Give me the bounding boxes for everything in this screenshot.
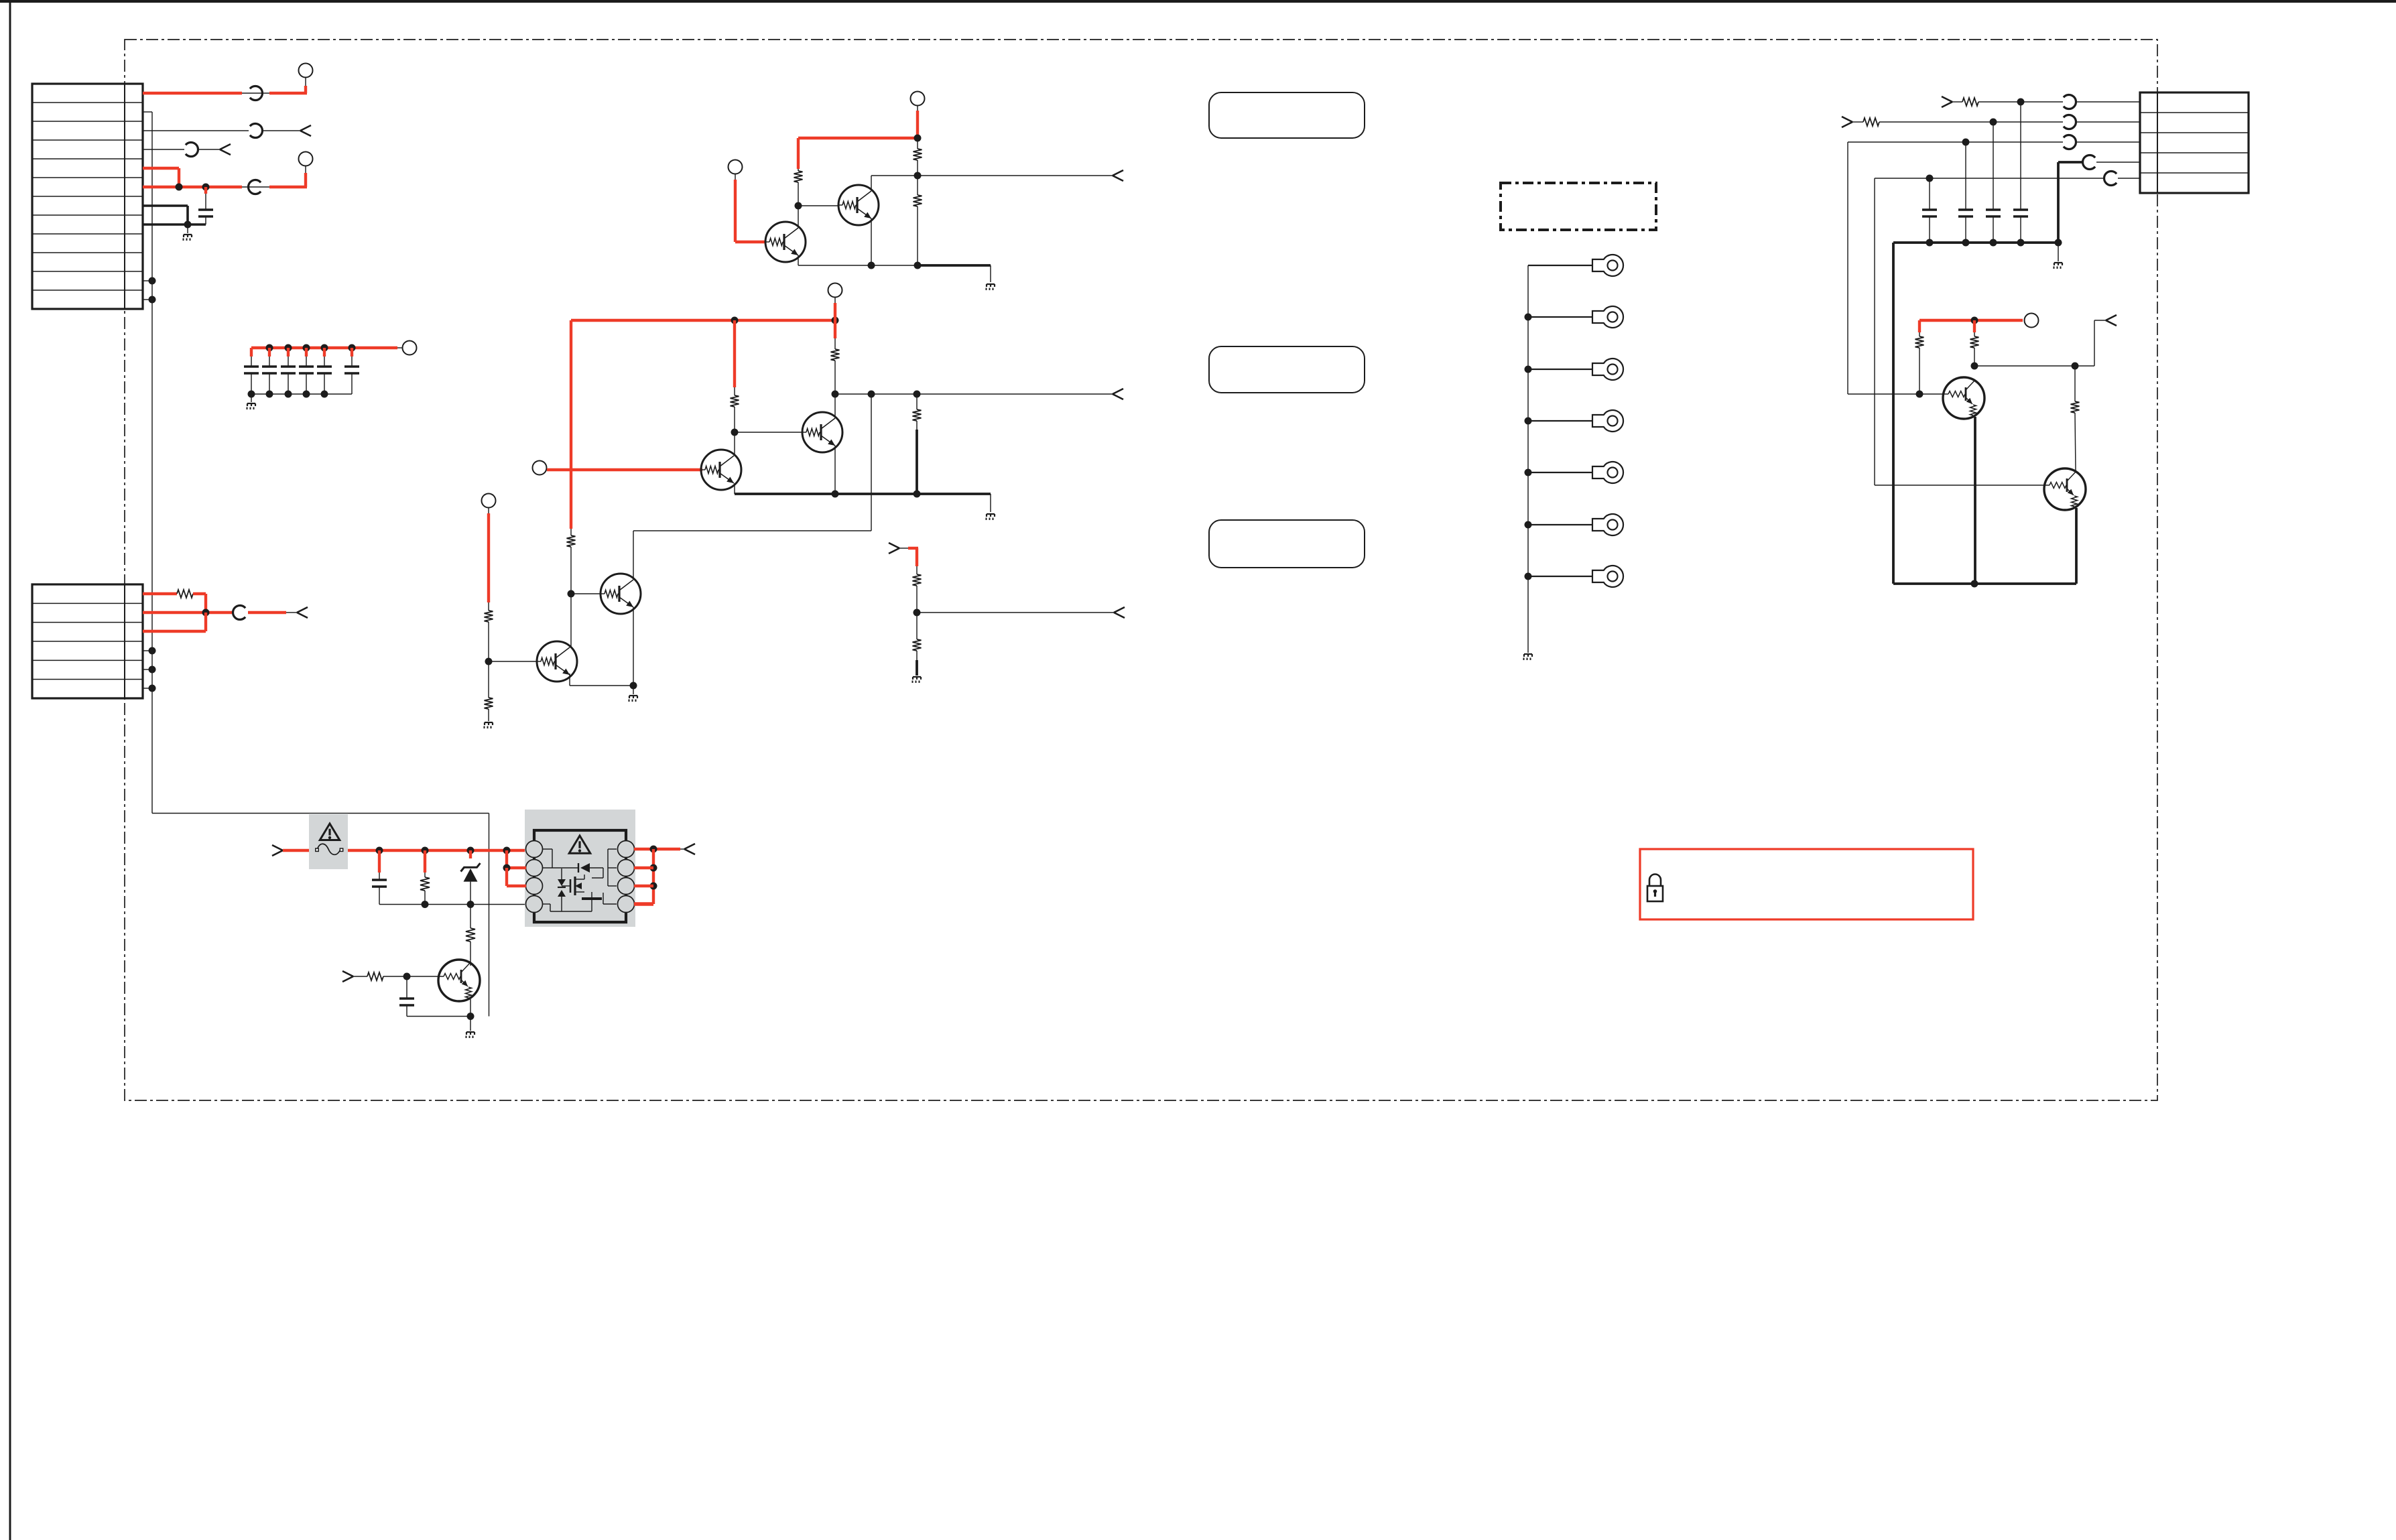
inline splice P1: [242, 86, 269, 101]
ring terminal E5: [1592, 462, 1623, 483]
ring terminal E1: [1592, 255, 1623, 276]
junction dot K1: [1926, 239, 1934, 247]
junction dot C1: [202, 609, 210, 617]
junction dot L1: [376, 847, 383, 854]
capacitor C12 bottom lead: [2020, 216, 2021, 243]
junction dot J3: [1962, 139, 1970, 146]
wire Q9 emitter: [470, 999, 471, 1017]
wire CN2 pin3 (red): [143, 613, 206, 631]
ground G1: [184, 224, 192, 241]
capacitor C1 bottom lead: [205, 216, 206, 224]
cap bank ground rail: [251, 393, 352, 395]
inline splice P7: [2064, 115, 2076, 129]
wire Q2 collector: [871, 176, 872, 191]
connector CN1: [32, 84, 143, 309]
resistor R20: [367, 972, 383, 980]
IC U1 internals: [543, 849, 617, 911]
wire N1 drop (red): [797, 138, 800, 169]
arrow in wireA: [1942, 97, 1952, 102]
capacitor C2 top lead: [251, 357, 252, 367]
zener diode D1: [461, 863, 481, 905]
arrow out pin3: [300, 125, 311, 131]
junction dot J9: [1971, 580, 1978, 588]
capacitor C5: [299, 365, 314, 367]
wire CN2 pin1 (red): [143, 592, 177, 595]
junction dot L10: [650, 883, 657, 890]
inline splice P5: [233, 606, 246, 620]
wire right tie (red): [652, 849, 655, 904]
junction dot D2: [914, 172, 922, 180]
wire CN2 pin4: [143, 650, 152, 651]
junction dot K5: [2055, 239, 2062, 247]
inline splice P8: [2064, 135, 2076, 149]
junction dot L12: [467, 1013, 475, 1020]
arrow in control: [342, 971, 353, 976]
wire TP5 down (red): [735, 174, 736, 243]
wire B in: [1852, 121, 1863, 123]
junction dot L9: [650, 864, 657, 872]
wire N2 drop left (red): [570, 320, 572, 529]
junction dot H4: [1525, 469, 1532, 476]
wire pin2 out end: [286, 612, 297, 613]
arrow out pin2: [297, 607, 308, 613]
junction dot D1: [914, 135, 922, 142]
wire A: [1978, 101, 2063, 103]
connector CN2: [32, 584, 143, 698]
wire Q6 collector link: [633, 394, 871, 531]
test point TP7: [533, 461, 547, 475]
test point TP2: [299, 152, 313, 166]
wire Q5 emitter: [570, 673, 633, 686]
capacitor C10 lead: [1965, 142, 1966, 210]
junction dot B3: [303, 344, 310, 352]
inline splice P6: [2064, 95, 2076, 109]
wire node N1 (red): [798, 137, 918, 139]
wire Q2 base: [798, 205, 839, 206]
wire Q6 base: [571, 593, 601, 594]
ground lug bus: [1527, 265, 1529, 647]
transistor Q3: [701, 450, 741, 490]
resistor R6: [831, 338, 840, 394]
junction dot H5: [1525, 521, 1532, 529]
wire node N2 (red): [571, 319, 835, 322]
junction dot B7: [266, 391, 273, 398]
capacitor C1 lead: [204, 187, 207, 210]
IC U1 highlight box: [525, 810, 635, 927]
wire TP4 down (red): [917, 106, 918, 139]
junction dot A3: [184, 221, 192, 229]
capacitor C10: [1958, 208, 1973, 210]
wire emitter rail1 thick: [918, 265, 991, 282]
wire pin3 out: [262, 130, 300, 131]
wire N3 right drop (red): [1973, 320, 1976, 332]
junction dot B1: [266, 344, 273, 352]
junction dot J1: [2017, 99, 2025, 106]
resistor R14: [1863, 118, 1879, 126]
capacitor C4 bottom lead: [288, 373, 289, 394]
wire out end: [680, 848, 684, 850]
junction dot C4: [149, 685, 156, 692]
transistor Q9: [438, 960, 480, 1001]
capacitor C12 lead: [2020, 102, 2021, 210]
wire Q7 base: [1919, 393, 1944, 395]
wire pin7 tie (red): [634, 867, 653, 869]
wire B to CN3: [2076, 121, 2140, 123]
wire D to CN3: [2096, 162, 2140, 163]
capacitor C4: [281, 365, 296, 367]
wire R7 to rail thick: [916, 430, 918, 494]
capacitor C10 bottom lead: [1965, 216, 1966, 243]
wire lug 2: [1528, 316, 1592, 318]
capacitor C6 bottom lead: [324, 373, 325, 394]
capacitor C14 lead: [406, 976, 407, 999]
wire out line2: [835, 393, 1113, 395]
ground rail IC: [379, 904, 526, 905]
ground G10: [466, 1017, 475, 1039]
resistor R1: [177, 590, 193, 598]
wire TP8 down (red): [488, 508, 489, 603]
capacitor C9 lead: [1929, 178, 1930, 210]
arrow in divider: [889, 543, 899, 548]
transistor Q2: [838, 185, 879, 225]
junction dot D5: [914, 262, 922, 269]
junction dot F1: [568, 590, 575, 598]
junction dot E4: [832, 391, 839, 398]
junction dot E5: [868, 391, 875, 398]
ground G2: [247, 394, 256, 409]
junction dot G1d: [913, 609, 921, 617]
junction dot L4: [503, 847, 511, 854]
capacitor C11 bottom lead: [1993, 216, 1994, 243]
padlock icon: [1647, 875, 1663, 901]
fuse F1 highlight box: [309, 814, 348, 869]
resistor R12: [913, 613, 922, 660]
ground G5: [485, 722, 493, 723]
ring terminal E4: [1592, 410, 1623, 432]
wire R1 to node (red): [193, 594, 206, 613]
wire pin3 jumper (red): [507, 868, 526, 886]
wire Q3 base (red): [547, 468, 702, 471]
arrow out right: [2106, 315, 2117, 320]
wire Q3 collector: [734, 432, 735, 456]
wire A in: [1952, 101, 1962, 103]
test point TP6: [828, 283, 842, 298]
ground G9: [2054, 243, 2063, 269]
wire CN1 pin5 (red): [143, 168, 179, 187]
wire lug 5: [1528, 472, 1592, 473]
junction dot A2: [202, 184, 210, 191]
connector CN3: [2140, 92, 2249, 193]
wire TP6 down (red): [834, 298, 836, 339]
resistor R19: [466, 905, 475, 963]
wire node N3 (red): [1919, 319, 2023, 322]
warning triangle W1: [320, 824, 339, 840]
wire pin4 out: [198, 149, 220, 150]
capacitor C2: [244, 365, 259, 367]
wire Q5 collector: [570, 594, 572, 648]
junction dot F2: [485, 658, 493, 665]
junction dot E7: [832, 491, 839, 498]
wire E to CN3: [2118, 178, 2140, 179]
page top edge: [0, 0, 2396, 3]
wire pin6 tie (red): [634, 885, 653, 887]
ground G6: [629, 686, 638, 702]
test point TP4: [911, 92, 925, 106]
junction dot J7: [1971, 363, 1978, 370]
resistor R9: [485, 602, 493, 661]
wire Q8 base: [1875, 485, 2045, 486]
junction dot E6: [913, 391, 921, 398]
capacitor C3 top lead: [287, 348, 290, 367]
junction dot C3: [149, 666, 156, 673]
capacitor C9: [1922, 208, 1937, 210]
wire CN2 pin5: [143, 669, 152, 670]
arrow in wireB: [1842, 117, 1852, 122]
wire out line1: [871, 175, 1113, 176]
wire Q1 emitter: [798, 255, 799, 265]
wire E: [1875, 178, 2104, 485]
wire out line3: [917, 612, 1114, 613]
arrow out line1: [1113, 170, 1123, 176]
warning triangle W2: [569, 836, 590, 853]
wire CN2 pin2 (red): [143, 611, 232, 614]
page left edge: [9, 0, 11, 1540]
arrow out line2: [1113, 389, 1123, 394]
wire power in (red): [283, 849, 309, 852]
emitter rail right thick: [1893, 582, 2076, 585]
junction dot J2: [1990, 119, 1997, 126]
capacitor C7: [344, 365, 359, 367]
wire lug 6: [1528, 524, 1592, 525]
inline splice P9: [2083, 155, 2096, 169]
wire B: [1879, 121, 2063, 123]
junction dot K3: [1990, 239, 1997, 247]
capacitor C11 lead: [1993, 122, 1994, 210]
junction dot J6: [1916, 391, 1924, 398]
junction dot B9: [303, 391, 310, 398]
wire N2 left to R8 (red): [570, 528, 572, 529]
capacitor C7 bottom lead: [351, 373, 353, 394]
capacitor C1: [198, 208, 213, 210]
sub-assembly box (dash-dot): [1501, 183, 1656, 230]
wire Q6 collector: [633, 531, 634, 580]
wire Q8 emitter thick: [2075, 508, 2078, 584]
test point TP5: [729, 160, 743, 174]
junction dot L8: [650, 846, 657, 853]
wire A to CN3: [2076, 101, 2140, 103]
resistor R10: [485, 661, 493, 721]
junction dot A1: [176, 184, 183, 191]
inline splice P3: [186, 142, 198, 156]
ground G7: [913, 676, 921, 678]
junction dot B4: [321, 344, 328, 352]
junction dot L3: [467, 847, 475, 854]
inline splice P10: [2104, 172, 2117, 186]
wire to test point TP2 (red): [269, 166, 307, 187]
junction dot B8: [285, 391, 292, 398]
wire C to CN3: [2076, 141, 2140, 143]
fuse F1: [316, 844, 343, 854]
resistor R11: [913, 566, 922, 613]
cap bank supply rail (red): [251, 348, 397, 357]
junction dot B10: [321, 391, 328, 398]
transistor Q8: [2044, 468, 2086, 510]
wire lug 1: [1528, 265, 1592, 266]
capacitor C13 bottom lead: [379, 887, 380, 905]
junction dot J8: [2072, 363, 2079, 370]
wire CN1 pin8: [143, 223, 206, 226]
junction dot K2: [1962, 239, 1970, 247]
junction dot J4: [1926, 175, 1934, 182]
resistor R3: [913, 138, 922, 176]
resistor R18: [420, 873, 430, 905]
capacitor C6: [317, 365, 332, 367]
callout box 2: [1209, 346, 1365, 393]
junction dot L11: [403, 973, 411, 980]
capacitor C4 top lead: [305, 348, 308, 367]
wire to test point TP1 (red): [269, 78, 307, 93]
capacitor C2 bottom lead: [251, 373, 252, 394]
wire Q4 emitter: [834, 446, 836, 494]
junction dot H6: [1525, 573, 1532, 580]
ring terminal E2: [1592, 306, 1623, 328]
capacitor C14 bottom lead: [407, 1005, 470, 1017]
arrow in power: [272, 845, 283, 850]
junction dot E3: [731, 429, 739, 436]
wire CN1 pin12: [143, 299, 152, 300]
capacitor C14: [399, 997, 414, 999]
inline splice P4: [242, 180, 269, 194]
wire CN1 pin1 (red): [143, 92, 242, 94]
test point TP8: [482, 494, 496, 508]
resistor R13: [1962, 98, 1978, 106]
junction dot H2: [1525, 366, 1532, 373]
junction dot L2: [422, 847, 429, 854]
wire R12 gnd stub: [916, 660, 918, 676]
junction dot A5: [149, 296, 156, 304]
resistor R5: [731, 387, 739, 432]
wire lug 4: [1528, 420, 1592, 422]
wire Q1 base (red): [735, 241, 766, 243]
junction dot H3: [1525, 418, 1532, 425]
junction dot E8: [913, 491, 921, 498]
wire ground bus vertical: [152, 112, 489, 1017]
resistor R15: [1915, 332, 1924, 394]
wire Q1 collector: [798, 206, 799, 228]
junction dot F3: [630, 682, 637, 690]
transistor Q4: [802, 412, 842, 452]
junction dot H1: [1525, 314, 1532, 321]
junction dot L6: [467, 901, 475, 908]
wire CN1 pin3: [143, 130, 249, 131]
resistor R17: [2071, 366, 2080, 471]
ground G4: [987, 513, 995, 515]
wire CN1 pin7: [143, 206, 188, 224]
junction dot L7: [503, 864, 511, 872]
wire pin2 jumper (red): [507, 850, 526, 868]
wire Q2 emitter: [871, 218, 872, 265]
arrow out line3: [1114, 607, 1125, 613]
IC U1 body: [534, 830, 626, 922]
transistor Q7: [1943, 377, 1984, 419]
transistor Q5: [537, 641, 577, 682]
resistor R4: [913, 176, 922, 265]
wire emitter rail2 thick: [735, 494, 991, 512]
wire Q4 base: [735, 432, 803, 433]
arrow out power: [684, 844, 695, 849]
capacitor C11: [1986, 208, 2001, 210]
wire Q9 base: [407, 976, 439, 977]
capacitor C13 lead: [378, 850, 381, 880]
wire N2 drop mid (red): [733, 320, 736, 387]
wire divider in (red): [899, 548, 918, 566]
note box (red): [1640, 849, 1973, 919]
transistor Q1: [765, 222, 806, 262]
wire Q9 collector: [470, 962, 471, 966]
wire Q5 base: [489, 661, 538, 662]
wire Q3 emitter: [734, 483, 735, 494]
junction dot B2: [285, 344, 292, 352]
wire pin5 tie (red): [634, 902, 653, 906]
capacitor C3: [262, 365, 277, 367]
capacitor C6 top lead: [351, 348, 353, 367]
arrow out pin4: [220, 144, 231, 149]
test point TP1: [299, 64, 313, 78]
wire emitter rail1: [798, 265, 918, 266]
resistor R16: [1970, 332, 1979, 366]
IC U1 pins: [526, 841, 543, 858]
resistor R18 lead: [424, 850, 426, 873]
ring terminal E6: [1592, 514, 1623, 535]
resistor R7: [913, 394, 922, 430]
junction dot E1: [731, 317, 739, 324]
transistor Q6: [601, 574, 641, 614]
ground G3: [987, 283, 995, 285]
callout box 3: [1209, 520, 1365, 568]
junction dot J5: [1971, 317, 1978, 324]
wire CN1 pin4: [143, 149, 184, 150]
wire CN1 pin2 to bus: [143, 111, 152, 113]
wire Q7 emitter thick: [1974, 417, 1976, 584]
capacitor C5 top lead: [323, 348, 326, 367]
junction dot C2: [149, 647, 156, 655]
test point TP3: [403, 341, 417, 355]
ground G8: [1524, 647, 1533, 660]
capacitor C5 bottom lead: [306, 373, 307, 394]
wire control in: [353, 976, 367, 977]
wire D thick: [2058, 162, 2083, 243]
junction dot L5: [422, 901, 429, 908]
junction dot B6: [248, 391, 255, 398]
wire power bus (red): [348, 849, 526, 852]
ring terminal E7: [1592, 566, 1623, 587]
wire CN2 pin6: [143, 688, 152, 689]
resistor R8: [567, 529, 576, 594]
capacitor C13: [372, 879, 387, 881]
inline splice P2: [250, 124, 263, 138]
wire pin2 out (red): [248, 611, 286, 614]
wire collector line Q7: [1974, 320, 2106, 366]
wire lug 7: [1528, 576, 1592, 577]
wire CN1 pin11: [143, 280, 152, 281]
junction dot D3: [795, 202, 802, 210]
resistor R2: [794, 169, 803, 206]
wire lug 3: [1528, 369, 1592, 370]
junction dot K4: [2017, 239, 2025, 247]
junction dot B5: [349, 344, 356, 352]
wire Q4 collector: [834, 394, 836, 418]
ring terminal E3: [1592, 359, 1623, 380]
